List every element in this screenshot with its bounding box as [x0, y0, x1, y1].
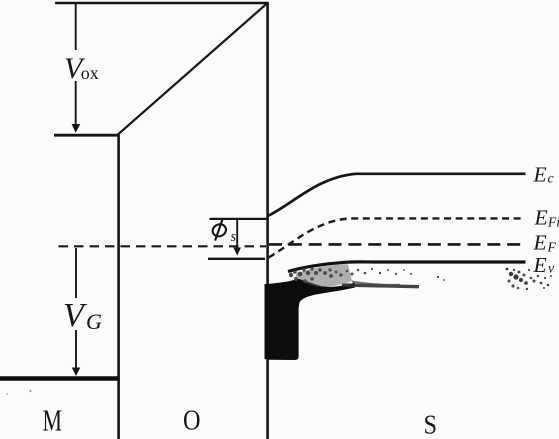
svg-text:E: E	[533, 253, 547, 277]
svg-text:F: F	[547, 239, 557, 254]
V_ox arrow	[60, 4, 94, 133]
E_F Fermi level dashed line (semiconductor side)	[269, 243, 521, 246]
V_G arrow	[61, 248, 93, 376]
E_c conduction band edge curve	[268, 174, 526, 216]
svg-text:E: E	[534, 206, 548, 230]
svg-text:v: v	[548, 261, 555, 276]
valence band shading streak	[342, 285, 419, 287]
label phi_s	[211, 220, 228, 241]
valence band stipple dots	[289, 267, 552, 290]
svg-text:S: S	[424, 410, 438, 439]
E_Fi intrinsic Fermi level dashed curve	[269, 218, 523, 257]
Fermi level dashed line (metal and oxide side)	[59, 245, 267, 247]
wire: oxide band slant line	[117, 3, 268, 135]
svg-text:c: c	[548, 171, 554, 186]
svg-text:Fi: Fi	[547, 214, 559, 229]
svg-text:s: s	[231, 229, 237, 245]
wire: top oxide band edge horizontal	[55, 2, 269, 4]
faint paper speck	[6, 393, 8, 395]
svg-text:E: E	[533, 231, 547, 255]
faint paper speck	[29, 390, 31, 392]
node: O/S interface vertical line	[266, 2, 269, 439]
phi_s top reference line	[210, 218, 268, 220]
metal Fermi level thick line	[0, 376, 120, 381]
svg-text:ox: ox	[81, 63, 99, 83]
phi_s arrow	[233, 220, 241, 256]
node: M/O interface vertical line	[117, 134, 120, 439]
E_v valence band edge curve	[288, 262, 526, 272]
svg-text:E: E	[533, 163, 547, 187]
wire: metal barrier ledge	[54, 134, 119, 137]
svg-text:G: G	[86, 309, 102, 334]
svg-text:O: O	[183, 406, 201, 437]
valence band mottled shading wedge	[296, 264, 352, 287]
svg-text:M: M	[43, 403, 63, 438]
phi_s bottom reference line	[208, 258, 265, 260]
valence band heavy shading blob	[265, 279, 356, 360]
valence band shading streak 2	[352, 282, 400, 285]
